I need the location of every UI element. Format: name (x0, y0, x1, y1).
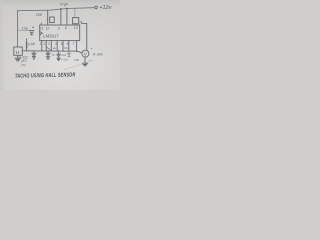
svg-text:25K: 25K (36, 13, 43, 17)
ground under meter (84, 57, 86, 63)
wire ground bus (22, 50, 77, 52)
svg-text:+12v: +12v (99, 5, 112, 11)
wire pin 1 stub (41, 41, 43, 51)
node rail junction B (60, 8, 62, 10)
node rail junction C (66, 8, 68, 10)
capacitor C6 on pin 10 (73, 18, 79, 24)
wire rail to C1 (47, 10, 49, 25)
paper crease mark (64, 61, 93, 70)
svg-text:11: 11 (40, 27, 44, 31)
svg-text:7: 7 (73, 42, 75, 46)
svg-text:2µ2: 2µ2 (61, 53, 66, 57)
svg-text:10: 10 (74, 26, 78, 30)
node bus junction pin7 (76, 51, 77, 52)
wire top +12V rail (18, 8, 95, 11)
svg-text:∗: ∗ (32, 26, 35, 30)
paper background (0, 0, 120, 90)
svg-text:LM2917: LM2917 (43, 34, 59, 39)
capacitor C3 0.022 (33, 51, 35, 53)
svg-text:1: 1 (40, 42, 42, 46)
wire bus to meter (77, 51, 82, 52)
wire pin 3 stub (50, 41, 52, 51)
svg-text:2: 2 (44, 42, 46, 46)
svg-text:9: 9 (58, 26, 60, 30)
ground under C3 (32, 56, 35, 58)
wire stub to C2 (18, 29, 30, 31)
wire pin 6 stub (68, 41, 70, 52)
svg-text:H: H (16, 50, 19, 55)
ground under C5 (57, 57, 60, 59)
op-amp U1 LM2917 body (40, 25, 80, 41)
svg-text:10n: 10n (64, 46, 69, 50)
ground under H1 (17, 55, 19, 58)
wire pin 11 stub (40, 23, 42, 25)
terminal +12V (95, 6, 98, 9)
svg-text:47µF: 47µF (60, 3, 69, 7)
svg-text:TACHO USING HALL SENSOR: TACHO USING HALL SENSOR (15, 72, 76, 79)
svg-text:1µ: 1µ (52, 52, 56, 56)
svg-text:10k: 10k (74, 58, 79, 62)
wire pin 7 stub (76, 41, 78, 52)
svg-text:0–10v: 0–10v (93, 52, 104, 56)
svg-text:0·022: 0·022 (61, 57, 68, 61)
capacitor C2 10u decoupling (30, 30, 34, 32)
node bus junction C4 (47, 50, 48, 51)
capacitor C1 (electrolytic box, + mark) (50, 17, 55, 23)
svg-text:4: 4 (55, 42, 57, 46)
svg-text:10µ: 10µ (22, 26, 28, 30)
U1 notch (40, 31, 43, 35)
capacitor C5 2u2 (58, 51, 60, 54)
wire left vertical from rail to hall sensor (17, 11, 19, 47)
wire pin 5 stub (62, 41, 64, 52)
node bus junction R1 (26, 50, 27, 51)
node rail junction A (47, 10, 48, 11)
node bus junction C3 (33, 50, 34, 51)
svg-text:3: 3 (48, 42, 50, 46)
wire diagonal pin2 to bus (46, 47, 51, 51)
svg-text:8: 8 (65, 26, 67, 30)
stray mark near pin 4 (53, 47, 55, 50)
node bus junction C5 (58, 51, 59, 52)
svg-text:12: 12 (46, 27, 50, 31)
wire rail to pin 8 (66, 9, 68, 26)
svg-text:5: 5 (61, 42, 63, 46)
resistor R1 3.6K (26, 39, 28, 51)
wire pin 2 stub (45, 41, 47, 51)
svg-text:-25v: -25v (20, 63, 26, 67)
capacitor C4 1u (47, 51, 49, 53)
wire rail to pin 9 (60, 9, 62, 25)
ground under C4 (46, 56, 50, 58)
capacitor C7 small on pin 6 (68, 51, 71, 56)
hall sensor H1 (14, 47, 22, 55)
svg-text:3·6K: 3·6K (28, 42, 36, 47)
wire pin 4 stub (56, 41, 58, 51)
svg-text:+: + (46, 18, 48, 22)
meter M1 voltmeter (82, 50, 89, 57)
wire pin10 to meter (81, 22, 87, 51)
